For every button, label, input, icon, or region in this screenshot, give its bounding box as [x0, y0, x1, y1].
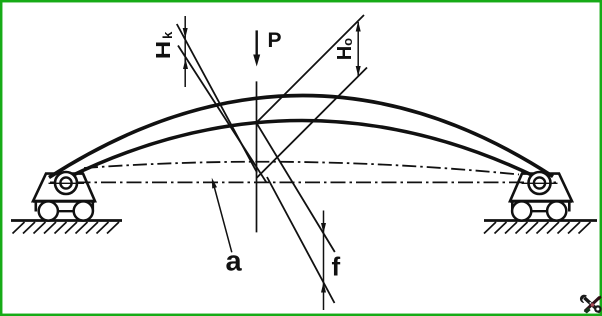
eye left inner: [60, 177, 71, 188]
wire oblique extension line F2 (through f lower): [267, 177, 335, 303]
wire oblique extension line U2 (to Ho bottom): [257, 68, 368, 179]
ground right: [484, 219, 597, 222]
support left roller trolley body: [33, 174, 95, 212]
leader line for label a with arrow: [212, 178, 232, 253]
hatching right ground: [484, 222, 591, 234]
hatching left ground: [13, 222, 120, 234]
wire oblique extension line F1 (through f upper): [257, 123, 335, 252]
wire lower dash-dot chord line: [50, 181, 556, 183]
svg-text:P: P: [268, 29, 282, 52]
label Hk (rotated): [152, 31, 175, 59]
wheel left A: [39, 201, 58, 220]
dimension f line with arrows: [321, 211, 326, 311]
eye left outer: [55, 172, 77, 194]
label Ho (rotated): [334, 38, 356, 60]
svg-text:k: k: [160, 31, 175, 39]
wheel right A: [512, 201, 531, 220]
svg-text:o: o: [340, 38, 355, 46]
svg-text:f: f: [332, 252, 341, 282]
svg-text:H: H: [152, 41, 175, 59]
eye right inner: [534, 177, 545, 188]
svg-text:H: H: [334, 46, 356, 60]
arrow P load arrow: [253, 30, 260, 66]
icon crossed tools bottom right: [580, 295, 602, 314]
wire oblique extension line U1 (to Ho top): [256, 15, 364, 123]
ground left: [11, 219, 122, 222]
support right roller trolley body: [510, 174, 572, 212]
wire oblique extension line K2 (through Hk lower): [178, 46, 267, 183]
wire top spring arc (free state): [49, 95, 553, 177]
eye right outer: [529, 172, 551, 194]
svg-text:a: a: [226, 246, 243, 278]
wire vertical load line: [256, 81, 258, 232]
wheel left B: [74, 201, 93, 220]
wire upper dash-dot centerline: [84, 162, 519, 175]
wire second spring arc: [68, 121, 537, 178]
wire oblique extension line K1 (through Hk upper): [177, 24, 257, 173]
eye right center mark: [522, 182, 558, 184]
eye left center mark: [49, 182, 85, 184]
dimension Ho line with arrows: [356, 21, 361, 77]
wheel right B: [547, 201, 566, 220]
dimension Hk line with arrows: [183, 16, 188, 87]
